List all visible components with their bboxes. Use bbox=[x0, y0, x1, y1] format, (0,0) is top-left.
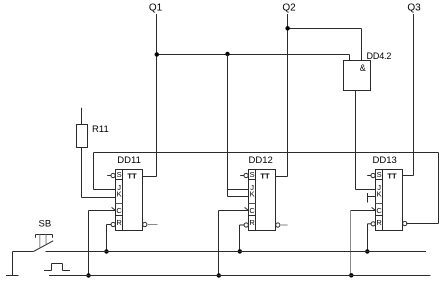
wire Q1 vertical bbox=[156, 14, 158, 177]
wire DD13 R to SB line bbox=[368, 224, 372, 252]
wire DD11 C to clock bus bbox=[89, 211, 116, 276]
wire Q2 to DD4.2 upper input bbox=[288, 29, 362, 61]
pin R label bbox=[376, 218, 382, 227]
svg-text:&: & bbox=[360, 63, 366, 73]
pin S input inverted stub bbox=[107, 173, 115, 177]
wire clock bus bbox=[49, 275, 431, 277]
AND gate DD4.2 bbox=[344, 61, 371, 91]
wire R11 top lead bbox=[81, 108, 83, 125]
wire DD11 inverted output stub bbox=[148, 224, 158, 226]
node Q2 bbox=[282, 2, 296, 13]
wire DD4.2 output to DD13 J bbox=[356, 91, 376, 190]
svg-text:R: R bbox=[376, 218, 382, 227]
label DD11 bbox=[117, 155, 141, 166]
svg-text:S: S bbox=[117, 170, 122, 179]
svg-text:DD12: DD12 bbox=[249, 155, 273, 166]
label DD13 bbox=[373, 155, 397, 166]
wire DD11 R to SB line bbox=[107, 225, 112, 252]
pin inverted output bbox=[143, 222, 147, 226]
pin S input inverted stub bbox=[240, 173, 248, 177]
label TT bbox=[260, 171, 270, 180]
flip-flop DD11 bbox=[116, 170, 143, 231]
pin R input inverted bbox=[244, 223, 248, 227]
pin S label bbox=[117, 170, 122, 179]
wire DD12 C to clock bus bbox=[219, 211, 249, 276]
flip-flop DD13 bbox=[376, 170, 403, 231]
svg-text:R: R bbox=[249, 218, 255, 227]
svg-text:S: S bbox=[250, 170, 255, 179]
wire DD12 Q output to Q2 bbox=[276, 176, 288, 178]
junction on Q2 line bbox=[285, 26, 289, 30]
pin K label bbox=[250, 190, 255, 199]
junction DD13 C on clock bus bbox=[349, 273, 353, 277]
wire SB left terminal to common bbox=[13, 252, 34, 276]
svg-text:Q2: Q2 bbox=[282, 2, 296, 13]
pin C dynamic-input mark bbox=[112, 207, 116, 210]
svg-text:Q1: Q1 bbox=[149, 2, 163, 13]
svg-text:R11: R11 bbox=[92, 124, 109, 135]
pin J label bbox=[117, 183, 121, 192]
label SB bbox=[39, 218, 52, 229]
label DD12 bbox=[249, 155, 273, 166]
svg-text:TT: TT bbox=[260, 171, 270, 180]
wire DD12 R to SB line bbox=[240, 225, 245, 252]
svg-text:TT: TT bbox=[387, 171, 397, 180]
pin C label bbox=[116, 206, 122, 215]
clock pulse symbol bbox=[44, 264, 70, 271]
pin K label bbox=[117, 190, 122, 199]
svg-text:TT: TT bbox=[127, 171, 137, 180]
flip-flop DD12 bbox=[249, 170, 276, 231]
junction on Q1 line bbox=[155, 52, 159, 56]
pin R input inverted bbox=[111, 222, 115, 226]
svg-text:S: S bbox=[377, 170, 382, 179]
pin C label bbox=[249, 206, 255, 215]
wire R11 to DD11 K bbox=[82, 148, 116, 198]
svg-text:C: C bbox=[249, 206, 255, 215]
junction DD12 R on SB line bbox=[238, 249, 242, 253]
svg-text:K: K bbox=[117, 190, 122, 199]
svg-text:SB: SB bbox=[39, 218, 52, 229]
svg-text:R: R bbox=[116, 218, 122, 227]
label TT bbox=[387, 171, 397, 180]
pin S label bbox=[377, 170, 382, 179]
junction branch point to DD12 J-K bbox=[225, 52, 229, 56]
wire Q2 vertical bbox=[287, 14, 289, 177]
pin inverted output bbox=[276, 223, 280, 227]
node Q1 bbox=[149, 2, 163, 13]
pin S input inverted stub bbox=[367, 173, 375, 177]
label TT bbox=[127, 171, 137, 180]
wire Q1 to DD4.2 lower input bbox=[157, 55, 350, 61]
common terminal bar bbox=[6, 275, 19, 277]
pin inverted output bbox=[403, 221, 407, 225]
junction DD12 C on clock bus bbox=[217, 273, 221, 277]
pin C dynamic-input mark bbox=[372, 207, 376, 210]
pin K label bbox=[377, 190, 382, 199]
wire DD11 Q output to Q1 bbox=[143, 176, 157, 178]
wire feedback DD13 inverted output to DD11 J bbox=[94, 153, 439, 224]
pin R label bbox=[116, 218, 122, 227]
pin R input inverted bbox=[371, 222, 375, 226]
svg-text:K: K bbox=[377, 190, 382, 199]
wire DD12 inverted output stub bbox=[281, 224, 288, 226]
junction DD11 C on clock bus bbox=[86, 273, 90, 277]
pin J label bbox=[377, 183, 381, 192]
svg-text:C: C bbox=[376, 206, 382, 215]
svg-text:Q3: Q3 bbox=[407, 2, 421, 13]
wire Q3 vertical bbox=[413, 14, 415, 176]
switch SB push-button bbox=[34, 235, 53, 252]
junction DD13 R on SB line bbox=[365, 249, 369, 253]
svg-text:DD13: DD13 bbox=[373, 155, 397, 166]
pin S label bbox=[250, 170, 255, 179]
pin J label bbox=[250, 183, 254, 192]
resistor R11 bbox=[77, 125, 88, 148]
svg-text:C: C bbox=[116, 206, 122, 215]
pin C dynamic-input mark bbox=[245, 207, 249, 210]
label DD4.2 bbox=[367, 51, 392, 61]
wire DD13 J-K tie bbox=[368, 193, 376, 203]
wire DD13 Q output to Q3 bbox=[403, 175, 414, 177]
svg-text:DD4.2: DD4.2 bbox=[367, 51, 392, 61]
svg-text:K: K bbox=[250, 190, 255, 199]
junction DD11 R on SB line bbox=[104, 249, 108, 253]
pin C label bbox=[376, 206, 382, 215]
pin R label bbox=[249, 218, 255, 227]
wire branch down to DD12 J and K bbox=[228, 55, 249, 197]
label R11 bbox=[92, 124, 109, 135]
wire DD13 C to clock bus bbox=[351, 211, 376, 276]
svg-text:DD11: DD11 bbox=[117, 155, 141, 166]
wire SB reset line bbox=[46, 251, 427, 253]
node Q3 bbox=[407, 2, 421, 13]
